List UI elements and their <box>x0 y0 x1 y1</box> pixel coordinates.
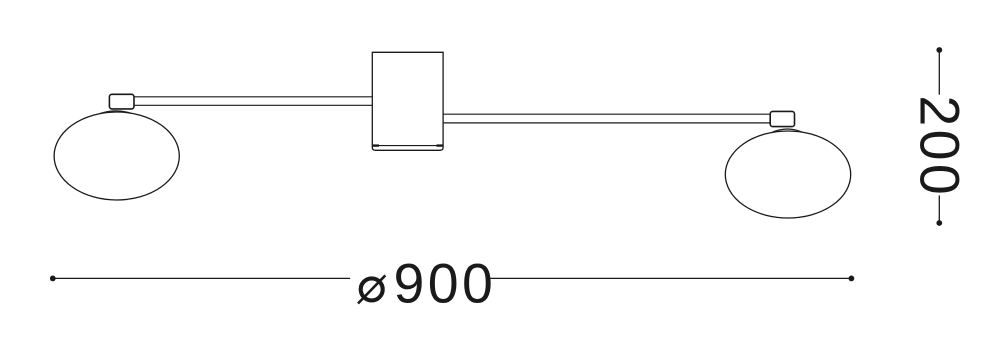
left lamp socket cap <box>109 94 134 109</box>
right arm lower wire <box>442 122 772 124</box>
height dimension bottom dot <box>936 220 942 226</box>
diameter dimension line right segment <box>490 277 851 279</box>
ceiling canopy box <box>372 52 443 150</box>
diameter symbol circle <box>361 278 383 300</box>
left shade neck rim arc <box>100 111 131 114</box>
diameter dimension right end dot <box>849 276 855 282</box>
right glass shade (oval diffuser) <box>725 131 850 218</box>
right shade neck rim arc <box>772 129 802 132</box>
height dimension line bottom segment <box>938 195 940 223</box>
diameter dimension left end dot <box>50 276 56 282</box>
height dimension top dot <box>936 47 942 53</box>
left glass shade (oval diffuser) <box>54 112 179 200</box>
left arm upper wire <box>130 96 374 98</box>
right lamp socket cap <box>770 111 794 126</box>
right arm upper wire <box>442 113 772 115</box>
diameter symbol slash <box>358 275 385 303</box>
height dimension line top segment <box>938 50 940 95</box>
canopy base plate right end mark <box>437 144 443 146</box>
left arm lower wire <box>130 104 374 106</box>
canopy base plate left end mark <box>373 144 379 146</box>
canopy base plate line <box>373 145 443 147</box>
svg-text:200: 200 <box>908 95 970 198</box>
svg-text:900: 900 <box>394 253 497 315</box>
diameter dimension line left segment <box>53 277 350 279</box>
